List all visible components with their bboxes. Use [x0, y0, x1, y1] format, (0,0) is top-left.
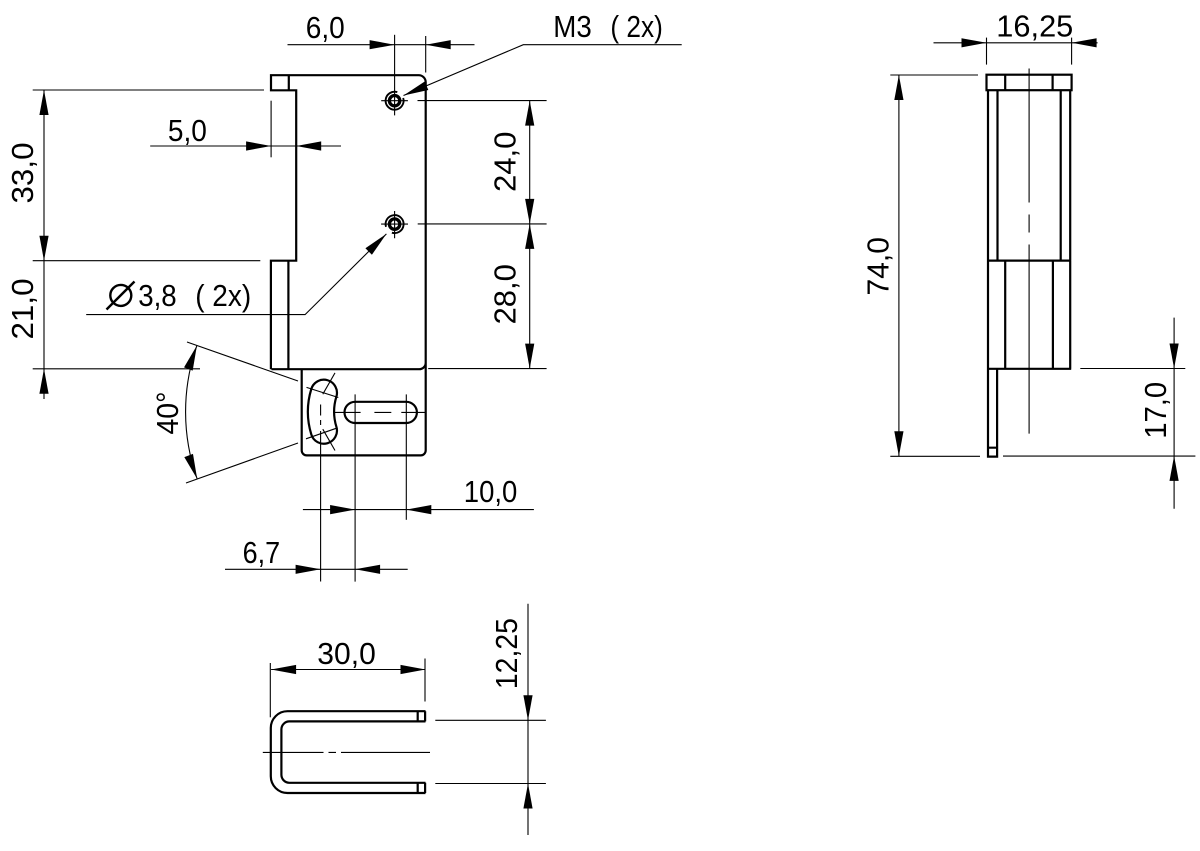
- extension 17,0 bottom: [1003, 455, 1195, 457]
- extension 21,0 bottom: [33, 368, 200, 370]
- arrow 10,0 left: [330, 505, 355, 514]
- svg-text:M3: M3: [553, 9, 592, 44]
- arrow arc top: [184, 344, 201, 371]
- svg-text:6,7: 6,7: [243, 535, 281, 570]
- extension 28,0 bottom: [428, 368, 546, 370]
- arrow 5,0 left: [246, 141, 271, 150]
- extension 33,0 top: [33, 89, 264, 91]
- centerline bean vertical: [320, 405, 322, 582]
- side view leg: [988, 369, 997, 457]
- extension 33,0 bottom: [33, 260, 261, 262]
- hole M3 upper inner: [389, 96, 399, 106]
- svg-text:17,0: 17,0: [1138, 382, 1173, 439]
- arrow 16,25 left: [962, 38, 987, 47]
- bean tick steep top: [323, 373, 335, 394]
- angle arc 40: [186, 346, 198, 480]
- angle line lower: [186, 443, 298, 483]
- bean tick steep bottom: [323, 429, 335, 450]
- arrow 24,0 bottom: [525, 199, 534, 224]
- extension 24,0 top: [418, 100, 547, 102]
- side view upper body: [988, 90, 1070, 260]
- arrow 6,0 left: [370, 40, 395, 49]
- leader dia 3,8: [86, 234, 386, 315]
- arrow 28,0 top: [525, 224, 534, 249]
- extension 74,0 bottom: [890, 455, 980, 457]
- extension 12,25 bottom: [435, 783, 546, 785]
- arrow 6,7 left: [296, 565, 321, 574]
- hole M3 lower inner: [389, 219, 399, 229]
- dimension line 33,0 21,0: [43, 90, 45, 399]
- extension 30,0 left: [269, 663, 271, 717]
- extension 24,0 bottom: [418, 223, 547, 225]
- centerline side view: [1028, 69, 1030, 434]
- extension 17,0 top: [1080, 368, 1185, 370]
- dimension line 6,7: [225, 568, 408, 570]
- arrow 10,0 right: [406, 505, 431, 514]
- arrow 74,0 bottom: [894, 431, 903, 456]
- dimension line 6,0: [288, 44, 475, 46]
- extension right edge 6,0: [425, 36, 427, 73]
- centerline bottom view: [263, 751, 430, 753]
- centerline upper hole: [381, 87, 408, 115]
- svg-text:21,0: 21,0: [5, 279, 40, 340]
- bottom view leg ticks: [417, 711, 419, 793]
- arrow 24,0 top: [525, 101, 534, 126]
- bottom view end caps: [424, 711, 426, 793]
- dimension line 17,0: [1173, 318, 1175, 509]
- arrow 30,0 right: [401, 665, 426, 674]
- extension 74,0 top: [890, 74, 978, 76]
- svg-text:( 2x): ( 2x): [610, 9, 663, 44]
- svg-text:40°: 40°: [150, 392, 185, 435]
- side view top band: [987, 75, 1072, 91]
- svg-text:24,0: 24,0: [488, 132, 523, 193]
- dimension line 24,0 28,0: [529, 101, 531, 369]
- arrow 12,25 top: [523, 695, 532, 720]
- slot obround: [345, 402, 417, 423]
- svg-text:28,0: 28,0: [488, 264, 523, 325]
- arrow arc bottom: [184, 454, 201, 481]
- arrow 6,7 right: [355, 565, 380, 574]
- arrow 17,0 top: [1170, 344, 1179, 369]
- hole M3 upper thread arc: [386, 92, 404, 110]
- hole M3 lower thread arc: [386, 215, 404, 233]
- svg-text:5,0: 5,0: [168, 113, 207, 148]
- bottom view outer: [271, 711, 426, 793]
- dimension line 10,0: [303, 509, 534, 511]
- arrow leader 3,8: [365, 231, 389, 255]
- side view divide: [987, 260, 1071, 262]
- arrow M3 leader: [402, 81, 429, 99]
- arrow 74,0 top: [894, 75, 903, 100]
- dimension line 5,0: [150, 145, 341, 147]
- leader M3: [404, 45, 682, 96]
- bean tick radial bottom: [306, 428, 338, 439]
- arrow 6,0 right: [426, 40, 451, 49]
- label dia symbol: [107, 282, 135, 310]
- arrow 16,25 right: [1072, 38, 1097, 47]
- svg-text:6,0: 6,0: [306, 10, 345, 45]
- dimension line 74,0: [898, 75, 900, 456]
- dimension line 12,25: [527, 604, 529, 835]
- front view outline: [270, 75, 426, 455]
- extension hole centerline 6,0: [394, 35, 396, 87]
- angle line upper: [187, 342, 298, 381]
- arrow 28,0 bottom: [525, 344, 534, 369]
- svg-text:10,0: 10,0: [464, 474, 518, 509]
- dimension line 16,25: [934, 42, 1098, 44]
- extension slot left: [354, 394, 356, 581]
- bottom view inner: [281, 721, 425, 782]
- extension slot right: [405, 394, 407, 519]
- svg-text:12,25: 12,25: [489, 618, 524, 689]
- arrow 33,0 top: [39, 90, 48, 115]
- arrow 5,0 right: [296, 141, 321, 150]
- extension 16,25 left: [986, 38, 988, 65]
- svg-text:( 2x): ( 2x): [195, 278, 251, 313]
- arrow 21,0 bottom: [39, 369, 48, 394]
- svg-text:30,0: 30,0: [317, 636, 376, 671]
- svg-text:74,0: 74,0: [861, 237, 896, 296]
- centerline lower hole: [381, 211, 408, 238]
- centerline slot horizontal: [335, 411, 426, 413]
- arrow 17,0 bottom: [1170, 456, 1179, 481]
- dimension line 30,0: [271, 669, 425, 671]
- svg-text:16,25: 16,25: [996, 9, 1073, 44]
- extension 16,25 right: [1071, 38, 1073, 65]
- curved slot bean: [308, 380, 337, 444]
- bean tick radial top: [307, 387, 339, 397]
- extension 12,25 top: [435, 719, 546, 721]
- arrow 12,25 bottom: [523, 784, 532, 809]
- svg-text:3,8: 3,8: [138, 278, 177, 313]
- side view lower body: [987, 261, 1071, 369]
- extension 5,0 left: [270, 101, 272, 158]
- arrow 30,0 left: [271, 665, 296, 674]
- arrow 33,0 bottom: [39, 236, 48, 261]
- extension 30,0 right: [424, 659, 426, 702]
- svg-text:33,0: 33,0: [5, 143, 40, 204]
